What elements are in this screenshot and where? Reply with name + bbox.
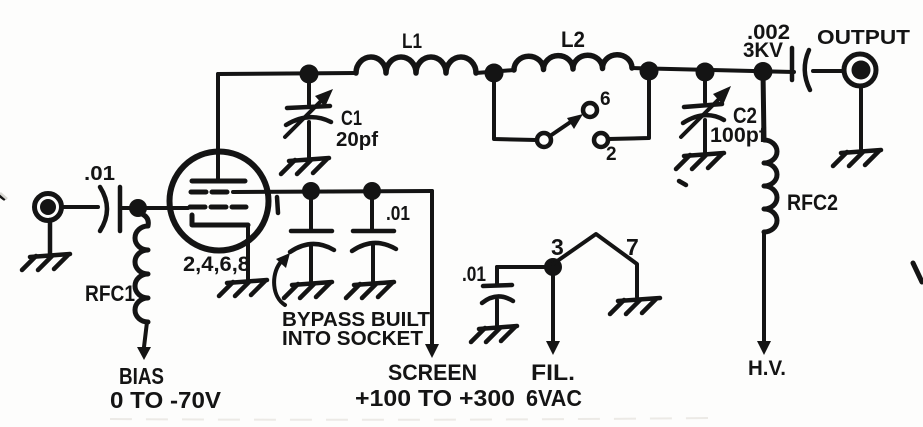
node fil pin3 bbox=[544, 258, 562, 276]
node L2 right bbox=[640, 62, 659, 81]
svg-text:OUTPUT: OUTPUT bbox=[817, 27, 910, 49]
capacitor .01 fil bbox=[495, 267, 499, 284]
svg-text:2,4,6,8: 2,4,6,8 bbox=[183, 253, 250, 276]
ground bypass 2 bbox=[346, 282, 394, 298]
wire L2 to C2 rail bbox=[632, 68, 794, 72]
wire L1 to L2 bbox=[476, 70, 514, 73]
svg-text:L2: L2 bbox=[561, 27, 585, 52]
ground under output bbox=[833, 150, 881, 166]
wire fil tent bbox=[553, 234, 637, 297]
arrow bypass note bbox=[274, 263, 285, 305]
svg-text:INTO SOCKET: INTO SOCKET bbox=[282, 328, 423, 350]
ground C2 bbox=[676, 153, 724, 169]
svg-text:C1: C1 bbox=[341, 107, 362, 130]
svg-text:RFC2: RFC2 bbox=[787, 190, 838, 215]
wire screen bus bbox=[233, 191, 432, 192]
scan noise left fleck bbox=[0, 193, 7, 199]
capacitor C1 variable bbox=[307, 74, 311, 104]
svg-text:2: 2 bbox=[606, 144, 617, 165]
inductor L1 bbox=[356, 57, 476, 73]
capacitor C2 variable bbox=[703, 72, 707, 102]
switch arm bbox=[550, 121, 572, 136]
tube plate bbox=[192, 179, 245, 184]
tube screen grid dashes bbox=[191, 190, 227, 195]
stray mark right edge bbox=[913, 263, 922, 282]
wire throw2 to rail bbox=[608, 72, 649, 139]
wire output to ground bbox=[859, 86, 863, 149]
capacitor bypass 1 bbox=[309, 191, 313, 230]
switch pole bbox=[537, 133, 551, 147]
tube plate lead bbox=[216, 74, 220, 181]
svg-text:20pf: 20pf bbox=[336, 129, 378, 151]
ground under J1 bbox=[22, 220, 70, 270]
inductor RFC2 bbox=[763, 72, 777, 232]
node grid junction bbox=[129, 199, 147, 217]
switch throw 6 bbox=[583, 103, 597, 117]
svg-text:SCREEN: SCREEN bbox=[388, 360, 477, 385]
wire fil arrow bbox=[551, 267, 555, 341]
svg-text:6VAC: 6VAC bbox=[526, 385, 582, 411]
tube control grid dashes bbox=[190, 205, 246, 210]
node screen b bbox=[363, 182, 381, 200]
wire cap to output bbox=[813, 69, 844, 73]
connector OUTPUT bbox=[844, 54, 876, 86]
wire input to C bbox=[61, 205, 98, 209]
capacitor .002 3KV bbox=[790, 48, 795, 80]
capacitor .01 input bbox=[100, 187, 107, 231]
scan noise streak bbox=[110, 418, 710, 420]
wire C to tube grid bbox=[122, 206, 188, 210]
node screen a bbox=[302, 182, 320, 200]
wire RFC2 to HV arrow bbox=[762, 232, 766, 341]
node plate-C1 bbox=[300, 65, 319, 84]
svg-text:7: 7 bbox=[626, 234, 639, 260]
node RFC2 top bbox=[754, 62, 773, 81]
svg-text:L1: L1 bbox=[402, 30, 422, 53]
ground C1 bbox=[281, 158, 329, 174]
wire switch left drop bbox=[494, 74, 536, 140]
ground fil pin7 bbox=[610, 298, 660, 314]
ground fil cap bbox=[471, 326, 517, 342]
inductor L2 bbox=[514, 55, 632, 70]
node L1-L2 bbox=[485, 64, 504, 83]
ground bypass 1 bbox=[284, 282, 332, 298]
svg-text:FIL.: FIL. bbox=[531, 360, 575, 385]
svg-text:3KV: 3KV bbox=[743, 39, 783, 62]
svg-text:RFC1: RFC1 bbox=[85, 281, 135, 306]
svg-text:.01: .01 bbox=[462, 263, 486, 286]
svg-text:H.V.: H.V. bbox=[748, 357, 786, 380]
tube V1 envelope bbox=[170, 152, 269, 251]
svg-text:6: 6 bbox=[600, 89, 611, 110]
cathode lead bbox=[246, 225, 250, 279]
stray mark under C2 ground bbox=[679, 181, 686, 185]
ground under cathode pins 2,4,6,8 bbox=[219, 280, 267, 296]
node C2 top bbox=[696, 63, 715, 82]
svg-text:100pf: 100pf bbox=[710, 124, 767, 147]
wire fil cap to node bbox=[497, 265, 553, 269]
wire RFC1 to bias arrow bbox=[144, 322, 147, 347]
svg-text:+100 TO +300: +100 TO +300 bbox=[355, 385, 515, 411]
svg-text:BIAS: BIAS bbox=[119, 363, 164, 389]
switch throw 2 bbox=[594, 133, 608, 147]
capacitor bypass 2 .01 bbox=[370, 191, 374, 230]
stray speck left edge bbox=[0, 196, 4, 199]
inductor RFC1 bbox=[135, 213, 148, 322]
connector J1 input bbox=[35, 194, 62, 221]
wire screen drop bbox=[430, 191, 434, 344]
pin 1 tick bbox=[277, 197, 278, 213]
svg-text:0 TO -70V: 0 TO -70V bbox=[110, 387, 222, 413]
wire plate rail bbox=[218, 73, 356, 74]
svg-text:.01: .01 bbox=[84, 163, 115, 185]
svg-text:.01: .01 bbox=[386, 203, 410, 225]
tube cathode bbox=[192, 215, 248, 225]
